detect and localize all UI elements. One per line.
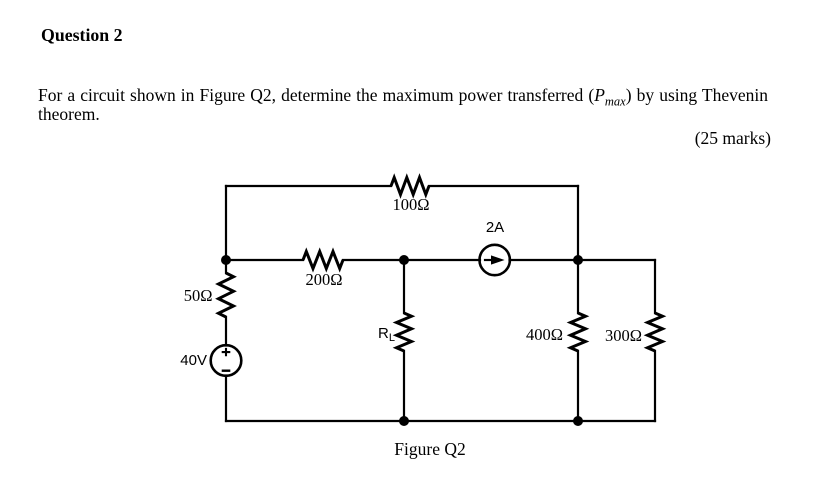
node at left junction bbox=[221, 255, 231, 265]
resistor RL zigzag bbox=[397, 313, 412, 351]
svg-text:50Ω: 50Ω bbox=[184, 286, 213, 305]
wire left vertical upper bbox=[225, 186, 227, 273]
svg-text:2A: 2A bbox=[486, 219, 504, 236]
wire between 50ohm and source bbox=[225, 317, 227, 346]
wire left vertical lower bbox=[225, 376, 227, 422]
resistor 200ohm zigzag bbox=[303, 252, 343, 269]
wire right vertical upper bbox=[577, 186, 579, 313]
label 50ohm bbox=[184, 286, 213, 305]
svg-text:300Ω: 300Ω bbox=[605, 326, 642, 345]
label 100ohm bbox=[392, 195, 429, 214]
label 200ohm bbox=[305, 270, 342, 289]
resistor 300ohm zigzag bbox=[648, 313, 663, 351]
svg-text:200Ω: 200Ω bbox=[305, 270, 342, 289]
label 400ohm bbox=[526, 325, 563, 344]
wire middle vertical upper bbox=[403, 260, 405, 313]
label 300ohm bbox=[605, 326, 642, 345]
label 2A bbox=[486, 219, 504, 236]
wire top-left horizontal bbox=[226, 185, 391, 187]
svg-text:40V: 40V bbox=[180, 352, 207, 369]
resistor 400ohm zigzag bbox=[571, 313, 586, 351]
bottom wire bbox=[226, 420, 655, 422]
current source I1 2A circle with arrow bbox=[480, 245, 510, 275]
wire middle row segment 2 bbox=[343, 259, 480, 261]
wire middle vertical lower bbox=[403, 351, 405, 421]
svg-text:Figure Q2: Figure Q2 bbox=[394, 439, 465, 459]
wire middle row segment 3 bbox=[510, 259, 656, 261]
heading Question 2 bbox=[41, 25, 123, 46]
wire far right vertical upper bbox=[654, 260, 656, 313]
resistor 100ohm zigzag bbox=[391, 178, 429, 195]
node at middle junction top bbox=[399, 255, 409, 265]
resistor 50ohm zigzag bbox=[219, 273, 234, 317]
question paragraph bbox=[38, 86, 768, 126]
wire top-right horizontal bbox=[429, 185, 578, 187]
label 40V bbox=[180, 352, 207, 369]
node at middle junction bottom bbox=[399, 416, 409, 426]
svg-text:RL: RL bbox=[378, 325, 395, 344]
caption Figure Q2 bbox=[394, 439, 465, 459]
svg-text:100Ω: 100Ω bbox=[392, 195, 429, 214]
svg-text:400Ω: 400Ω bbox=[526, 325, 563, 344]
label RL bbox=[378, 325, 395, 344]
voltage source V1 40V circle bbox=[211, 345, 242, 376]
wire middle row segment 1 bbox=[226, 259, 303, 261]
node at right junction top bbox=[573, 255, 583, 265]
wire far right vertical lower bbox=[654, 351, 656, 421]
marks bbox=[695, 128, 771, 149]
wire right vertical lower bbox=[577, 351, 579, 421]
node at right junction bottom bbox=[573, 416, 583, 426]
